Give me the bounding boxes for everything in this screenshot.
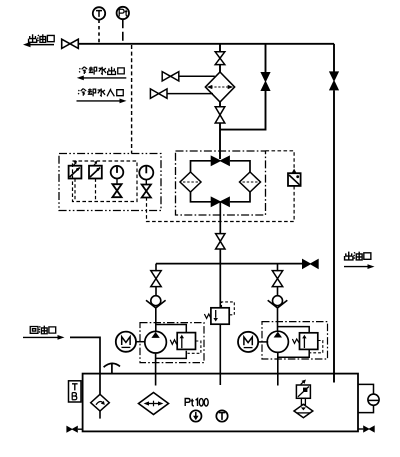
wire gauge G1 to valve (116, 179, 118, 185)
pressure gauge G2 (139, 166, 153, 180)
wire motor shaft 1 (136, 341, 145, 343)
wire valve to manifold (219, 249, 221, 264)
wire gauge G2 to valve (145, 180, 147, 185)
valve V12 left pump discharge (151, 271, 161, 287)
wire filter loop top right (230, 161, 250, 172)
wire filter loop bottom right (230, 192, 250, 202)
wire dp sense top dashed (266, 151, 295, 168)
flow arrow out left (23, 42, 54, 47)
pilot RV3 dashed (222, 302, 235, 315)
wire right pump branch (277, 264, 279, 272)
relief valve RV3 main (211, 308, 229, 324)
wire main top header (78, 43, 334, 45)
wire check to pump P2 (277, 308, 279, 332)
wire instrument sense dashed (131, 45, 133, 154)
label cooling water inlet (78, 88, 123, 96)
wire main vertical upper (219, 44, 221, 52)
valve V10 main shut-off (216, 234, 225, 249)
wire right riser long (333, 90, 335, 382)
thermometer T (93, 7, 105, 19)
wire filter loop bottom left (191, 192, 212, 202)
wire relief loop 1 bottom (156, 351, 187, 359)
wire relief RV3 discharge (219, 324, 221, 385)
level switch head (296, 385, 310, 398)
motor M2 (238, 332, 258, 352)
wire relief loop 1 top (156, 325, 187, 334)
tank (83, 374, 358, 432)
drain valve right closed (363, 425, 375, 432)
valve V9 gauge isolation (142, 185, 151, 198)
pump unit 2 dash-dot box (262, 322, 328, 359)
wire valve to check left (155, 286, 157, 296)
wire relief loop 2 top (278, 327, 309, 333)
relief valve RV2 (300, 333, 318, 350)
wire cooler to valve (219, 102, 221, 107)
wire left pump branch (155, 264, 157, 272)
wire bypass branch lower (220, 91, 266, 130)
filter element F1 (180, 172, 201, 192)
valve V6 bypass closed (260, 72, 270, 91)
label outlet left (chu you kou) (29, 34, 55, 42)
wire dp sense bottom dashed (147, 186, 295, 222)
wire water out to cooler (179, 75, 215, 77)
duplex filter dash-dot box (176, 151, 266, 215)
cooler heat exchanger (205, 72, 234, 102)
valve V11 outlet right closed (302, 259, 319, 270)
flow arrow water out (77, 76, 127, 81)
pilot RV1 dashed (188, 341, 201, 353)
valve V1 outlet shut-off (62, 39, 79, 48)
wire filter loop top left (191, 161, 212, 172)
wire pump P1 suction (155, 354, 157, 386)
pump P1 (145, 331, 167, 353)
wire right riser upper (333, 44, 335, 72)
breather cap (104, 363, 120, 374)
label Pt100 (185, 399, 208, 407)
wire valve to cooler (219, 65, 221, 72)
pilot RV2 dashed (310, 341, 323, 353)
wire Pt sense (122, 19, 124, 44)
label cooling water outlet (79, 67, 124, 75)
wire PS2 drop dashed (95, 179, 97, 202)
valve V4 above cooler (215, 52, 225, 65)
level gauge glass (368, 394, 379, 405)
level gauge loop (358, 384, 374, 412)
spring RV3 (204, 314, 211, 318)
level switch stem (301, 398, 305, 404)
pressure switch PS1 (69, 161, 82, 179)
level switch arrow (301, 380, 306, 385)
level float body (294, 404, 313, 417)
valve FV1 filter inlet closed (211, 155, 230, 166)
wire check to pump P1 (155, 308, 157, 332)
flow arrow water in (77, 99, 127, 104)
wire pump P2 suction (277, 352, 279, 385)
pump P2 (267, 331, 288, 352)
spring RV1 (170, 340, 177, 345)
pressure switch PS2 (89, 161, 102, 179)
dp indicator square (288, 169, 301, 186)
valve V2 cooling water out (162, 72, 179, 81)
temp sensor circle 2 (216, 410, 227, 421)
pressure gauge G1 (111, 166, 124, 179)
wire drain stub right (358, 428, 363, 430)
filter element F2 (240, 172, 261, 192)
wire cooler outlet down (219, 123, 221, 159)
diffuser in tank (91, 394, 110, 411)
wire pump discharge manifold (156, 263, 302, 265)
wire valve to check right (277, 286, 279, 296)
motor M1 (116, 332, 136, 352)
wire water in to cooler (167, 93, 213, 95)
valve V8 gauge isolation (112, 184, 121, 197)
relief valve RV1 (177, 333, 195, 350)
pump unit 1 dash-dot box (140, 323, 204, 363)
wire drain stub left (78, 428, 83, 430)
T B label box (69, 381, 82, 402)
wire T sense dashed (98, 20, 100, 44)
instrument panel inner box (73, 161, 138, 202)
instrument panel outer box (59, 154, 161, 211)
temp sensor circle 1 (190, 410, 201, 421)
transmitter Pt (117, 7, 129, 19)
wire relief loop 2 bottom (278, 349, 309, 357)
drain valve left closed (66, 426, 77, 433)
wire PS1 drop dashed (74, 179, 76, 202)
valve V7 right riser closed (329, 71, 339, 90)
wire bypass branch upper (265, 44, 267, 73)
wire diffuser outlet stub (99, 411, 101, 419)
valve V13 right pump discharge (272, 271, 282, 287)
wire return line (70, 337, 100, 394)
label return port (hui you kou) (30, 326, 55, 334)
wire filter outlet down (219, 202, 221, 234)
wire motor shaft 2 (258, 341, 268, 343)
valve FV2 filter outlet closed (211, 196, 230, 207)
flow arrow return in (23, 335, 65, 340)
spring RV2 (292, 339, 299, 343)
suction filter in tank (139, 393, 169, 415)
flow arrow outlet right (344, 264, 375, 269)
check valve CV2 (268, 296, 288, 308)
wire center riser to relief (219, 264, 221, 308)
check valve CV1 (146, 296, 166, 308)
valve V3 cooling water in (150, 89, 167, 98)
label outlet right (chu you kou) (345, 252, 371, 260)
valve V5 below cooler (215, 107, 225, 123)
